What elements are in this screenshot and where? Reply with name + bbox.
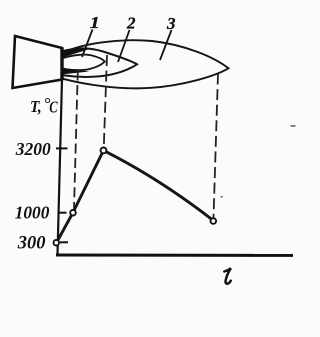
temperature curve: [56, 150, 213, 243]
curve marker at 3200 peak: [101, 148, 107, 154]
svg-text:1: 1: [90, 13, 100, 32]
tick 300: [60, 241, 68, 243]
dashed projection line from zone 1 tip: [104, 55, 107, 147]
dark core upper wedge: [63, 48, 92, 57]
curve marker at 1000: [70, 210, 76, 216]
axis label l: [224, 268, 231, 284]
dark core lower wedge: [63, 68, 90, 74]
speck artifact right edge: [291, 125, 296, 127]
svg-text:C: C: [49, 99, 58, 117]
flame zone 1 inner core: [63, 55, 105, 71]
svg-text:1000: 1000: [15, 202, 50, 222]
flame zone 3 outer envelope: [63, 40, 229, 88]
svg-text:T,: T,: [30, 98, 42, 116]
x axis: [56, 254, 293, 257]
leader line for 2: [118, 30, 130, 62]
svg-text:300: 300: [17, 234, 46, 254]
dashed projection line from flame tip: [214, 74, 219, 218]
dashed projection line from zone 1 start: [74, 71, 78, 209]
y axis (continues from nozzle edge): [58, 79, 63, 255]
speck artifact near dashed line: [221, 196, 223, 198]
nozzle body: [13, 36, 63, 88]
svg-text:3200: 3200: [15, 139, 51, 159]
tick 1000: [60, 212, 67, 214]
leader line for 1: [82, 30, 93, 58]
svg-text:2: 2: [126, 14, 136, 33]
curve marker at 300: [54, 240, 60, 246]
tick 3200: [56, 147, 68, 149]
curve marker at flame tip: [211, 218, 217, 224]
leader line for 3: [160, 30, 172, 60]
flame zone 2 middle zone: [63, 48, 137, 77]
nozzle exit edge thick bar: [60, 48, 63, 81]
